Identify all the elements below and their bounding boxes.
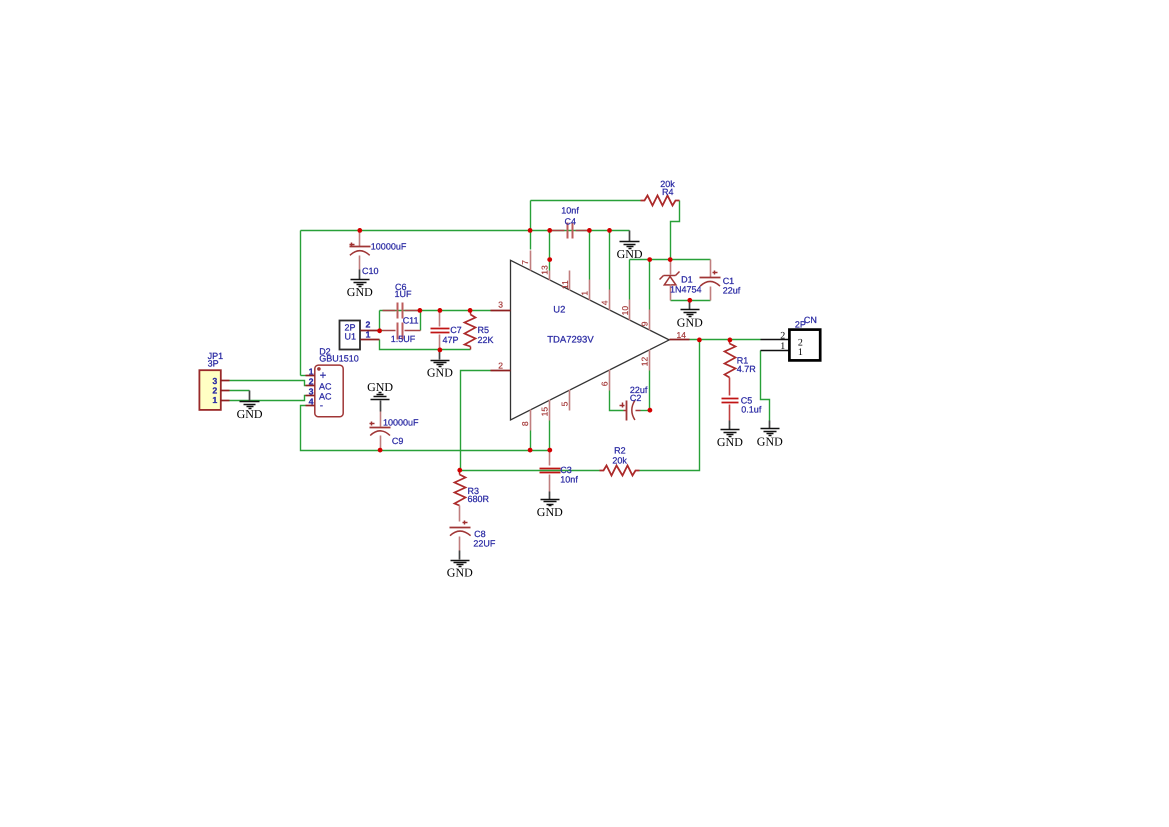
pin 15 lead U2	[549, 400, 551, 421]
wire pin 8 drop	[530, 431, 532, 451]
junction C10/+V rail	[357, 228, 362, 233]
capacitor C4 10nf	[550, 230, 565, 232]
wire R4 right to +V2 rail	[671, 201, 680, 260]
wire R2 left to R3 node	[460, 470, 600, 472]
pin stub JP1.3	[221, 380, 230, 382]
wire JP1.1 to D2.3	[230, 396, 306, 401]
pin 6 lead U2	[609, 370, 611, 391]
svg-text:GND: GND	[537, 505, 563, 519]
svg-text:GND: GND	[617, 247, 643, 261]
wire ground rail under C7/R5	[380, 340, 471, 350]
svg-text:10000uF: 10000uF	[383, 417, 419, 427]
svg-text:9: 9	[640, 321, 650, 326]
junction R5 top	[468, 308, 473, 313]
svg-text:10000uF: 10000uF	[371, 242, 407, 252]
svg-text:22UF: 22UF	[473, 539, 496, 549]
capacitor C5 0.1uf	[722, 398, 739, 400]
capacitor C6 1UF	[383, 310, 396, 312]
svg-text:2: 2	[212, 386, 217, 396]
svg-text:U2: U2	[553, 304, 565, 315]
svg-text:C1: C1	[723, 276, 735, 286]
svg-text:C4: C4	[565, 217, 577, 227]
svg-text:GND: GND	[757, 435, 783, 449]
wire R4 top loop	[530, 201, 532, 231]
wire pin 9 drop	[649, 260, 651, 310]
svg-text:AC: AC	[319, 382, 332, 392]
wire pin 1 drop	[589, 231, 591, 280]
junction pin13/C4	[547, 228, 552, 233]
pin stub JP1.2	[221, 390, 230, 392]
svg-text:5: 5	[560, 401, 570, 406]
junction pin15/C3	[547, 448, 552, 453]
svg-text:1: 1	[579, 291, 589, 296]
junction C6/C11	[418, 308, 423, 313]
wire feedback riser / R2 right	[640, 340, 700, 471]
capacitor C3 10nf	[549, 451, 551, 466]
wire left +V bus	[300, 231, 302, 376]
wire pin 4 drop	[609, 231, 611, 290]
ground D1/C1	[689, 301, 691, 310]
svg-text:10nf: 10nf	[561, 205, 579, 215]
svg-text:GND: GND	[367, 380, 393, 394]
wire JP1.2 to GND	[230, 390, 250, 392]
svg-text:C3: C3	[560, 465, 572, 475]
svg-text:GND: GND	[347, 285, 373, 299]
wire input rail to pin 3	[380, 310, 491, 312]
capacitor C9 10000uF	[380, 401, 382, 412]
svg-text:R4: R4	[662, 187, 674, 197]
pin stub JP1.1	[221, 400, 230, 402]
svg-text:GND: GND	[717, 435, 743, 449]
svg-text:GND: GND	[677, 315, 703, 329]
svg-text:-: -	[320, 401, 323, 412]
pin 8 lead U2	[530, 410, 532, 431]
ground CN	[769, 421, 771, 429]
svg-text:CN: CN	[804, 315, 817, 325]
pin 9 lead U2	[649, 310, 651, 331]
pin stub U1.1	[361, 339, 380, 341]
svg-text:13: 13	[540, 265, 550, 275]
wire +V top rail	[301, 230, 630, 232]
wire pin 10 drop	[629, 260, 631, 300]
svg-text:D1: D1	[681, 275, 693, 285]
connector JP1 3P	[199, 370, 220, 410]
bridge rectifier D2 GBU1510	[315, 365, 343, 417]
svg-text:R2: R2	[614, 446, 626, 456]
wire D1/C1 bottom rail	[671, 300, 711, 302]
capacitor C8 22UF	[463, 522, 468, 524]
svg-text:10nf: 10nf	[560, 475, 578, 485]
junction R3/R2 net	[457, 468, 462, 473]
svg-text:680R: 680R	[468, 494, 490, 504]
op-amp U2 TDA7293V triangle	[511, 260, 670, 420]
pin 11 lead U2	[569, 271, 571, 291]
capacitor C2 22uf	[624, 410, 627, 412]
ground top middle	[629, 231, 631, 242]
svg-text:1: 1	[212, 395, 217, 405]
resistor R3 680R	[459, 471, 461, 475]
junction C7 top	[438, 308, 443, 313]
svg-text:C10: C10	[362, 266, 379, 276]
svg-text:2: 2	[780, 330, 785, 341]
svg-text:20k: 20k	[612, 456, 627, 466]
svg-text:0.1uf: 0.1uf	[741, 405, 762, 415]
junction output/R1	[728, 338, 733, 343]
svg-text:1: 1	[798, 347, 803, 358]
svg-text:R5: R5	[478, 325, 490, 335]
svg-text:GBU1510: GBU1510	[319, 353, 359, 363]
svg-text:4: 4	[600, 300, 610, 305]
capacitor C1 22uf	[710, 260, 712, 278]
wire output net pin 14	[690, 339, 761, 341]
junction pin1/C4	[587, 228, 592, 233]
svg-text:GND: GND	[427, 366, 453, 380]
wire C11 right riser	[420, 311, 422, 331]
wire D2.4 to bottom bus	[301, 406, 550, 451]
svg-text:GND: GND	[237, 407, 263, 421]
resistor R2 20k	[600, 466, 640, 476]
wire JP1.3 to D2.2	[230, 381, 306, 386]
pin 2 stub U2	[491, 370, 511, 372]
junction C2/pin12	[648, 408, 653, 413]
wire C2 right to pin 12 column	[641, 410, 650, 412]
pin 10 lead U2	[629, 300, 631, 321]
svg-text:2: 2	[366, 319, 371, 329]
svg-text:C8: C8	[474, 529, 486, 539]
junction pin9/+V2	[647, 257, 652, 262]
pin stub U1.2	[361, 330, 380, 332]
pin stub D2.4	[306, 405, 315, 407]
junction pin7/R4	[528, 228, 533, 233]
junction pin13 wire	[547, 257, 552, 262]
resistor R4 20k	[641, 196, 680, 206]
junction output/R2	[697, 338, 702, 343]
capacitor C10 10000uF	[359, 231, 361, 247]
svg-text:10: 10	[620, 306, 630, 316]
svg-text:14: 14	[677, 330, 687, 340]
resistor R1 4.7R	[729, 340, 731, 344]
ground JP1	[249, 391, 251, 402]
pin stub D2.3	[306, 395, 315, 397]
svg-text:12: 12	[640, 356, 650, 366]
connector U1 2P	[340, 321, 361, 350]
svg-text:1: 1	[780, 341, 785, 352]
junction pin8/bus	[528, 448, 533, 453]
wire pin 7 drop	[530, 231, 532, 250]
junction C7 bottom	[438, 348, 443, 353]
capacitor C7 47P	[439, 311, 441, 327]
pin 13 lead U2	[549, 271, 551, 281]
ground C9 (inverted)	[371, 399, 390, 401]
svg-text:+: +	[320, 370, 327, 382]
svg-text:4.7R: 4.7R	[737, 364, 757, 374]
wire +V2 rail (pins 10/9, D1, C1)	[630, 259, 711, 261]
svg-text:22uf: 22uf	[723, 286, 741, 296]
svg-text:C11: C11	[403, 316, 419, 326]
pin 5 lead U2	[569, 390, 571, 411]
svg-text:TDA7293V: TDA7293V	[547, 334, 594, 345]
svg-text:7: 7	[520, 260, 530, 265]
ground C8	[451, 560, 470, 562]
pin 14 stub U2	[670, 339, 690, 341]
svg-text:2: 2	[498, 361, 503, 371]
wire pin 13 drop	[549, 231, 551, 271]
ground C3	[549, 492, 551, 500]
diode D1 zener 1N4754	[670, 260, 672, 275]
wire C6/C11 left node	[380, 330, 383, 332]
svg-text:C9: C9	[392, 436, 404, 446]
wire D2 pin1 branch	[301, 375, 306, 377]
svg-text:3: 3	[212, 376, 217, 386]
wire pin 15 drop	[549, 421, 551, 451]
wire pin 6 drop	[610, 391, 624, 411]
junction C9/bus	[378, 448, 383, 453]
svg-text:11: 11	[560, 280, 570, 289]
svg-text:22K: 22K	[478, 335, 494, 345]
svg-text:C7: C7	[450, 325, 462, 335]
wire pin 12 drop	[649, 371, 651, 411]
svg-text:47P: 47P	[443, 335, 459, 345]
wire pin 2 to R3 column	[461, 371, 491, 471]
svg-text:U1: U1	[345, 331, 357, 341]
pin stub D2.2	[306, 385, 315, 387]
svg-text:1.5UF: 1.5UF	[391, 334, 416, 344]
ground C7	[439, 350, 441, 360]
svg-text:1N4754: 1N4754	[670, 285, 702, 295]
pin 1 lead U2	[589, 280, 591, 301]
svg-text:C2: C2	[630, 393, 642, 403]
ground C10	[351, 279, 370, 281]
pin 12 lead U2	[649, 350, 651, 371]
wire CN pin1 to GND	[761, 351, 770, 421]
ground C5	[721, 429, 740, 431]
junction U1.2/C11	[377, 328, 382, 333]
svg-text:GND: GND	[447, 566, 473, 580]
svg-text:1UF: 1UF	[395, 289, 413, 299]
junction pin4/GND	[607, 228, 612, 233]
svg-text:3: 3	[498, 300, 503, 310]
svg-text:6: 6	[600, 381, 610, 386]
pin 7 lead U2	[530, 251, 532, 271]
connector CN 2P	[761, 339, 790, 341]
junction D1/R4	[668, 257, 673, 262]
capacitor C11 1.5UF	[383, 330, 396, 332]
resistor R5 22K	[470, 311, 472, 315]
junction D1 gnd rail	[687, 298, 692, 303]
pin 4 lead U2	[609, 290, 611, 311]
wire C6 to C11 left riser	[379, 311, 381, 331]
pin stub D2.1	[306, 375, 315, 377]
svg-text:8: 8	[520, 421, 530, 426]
svg-text:3P: 3P	[208, 359, 219, 369]
svg-text:15: 15	[540, 407, 550, 417]
pin 3 stub U2	[491, 310, 511, 312]
